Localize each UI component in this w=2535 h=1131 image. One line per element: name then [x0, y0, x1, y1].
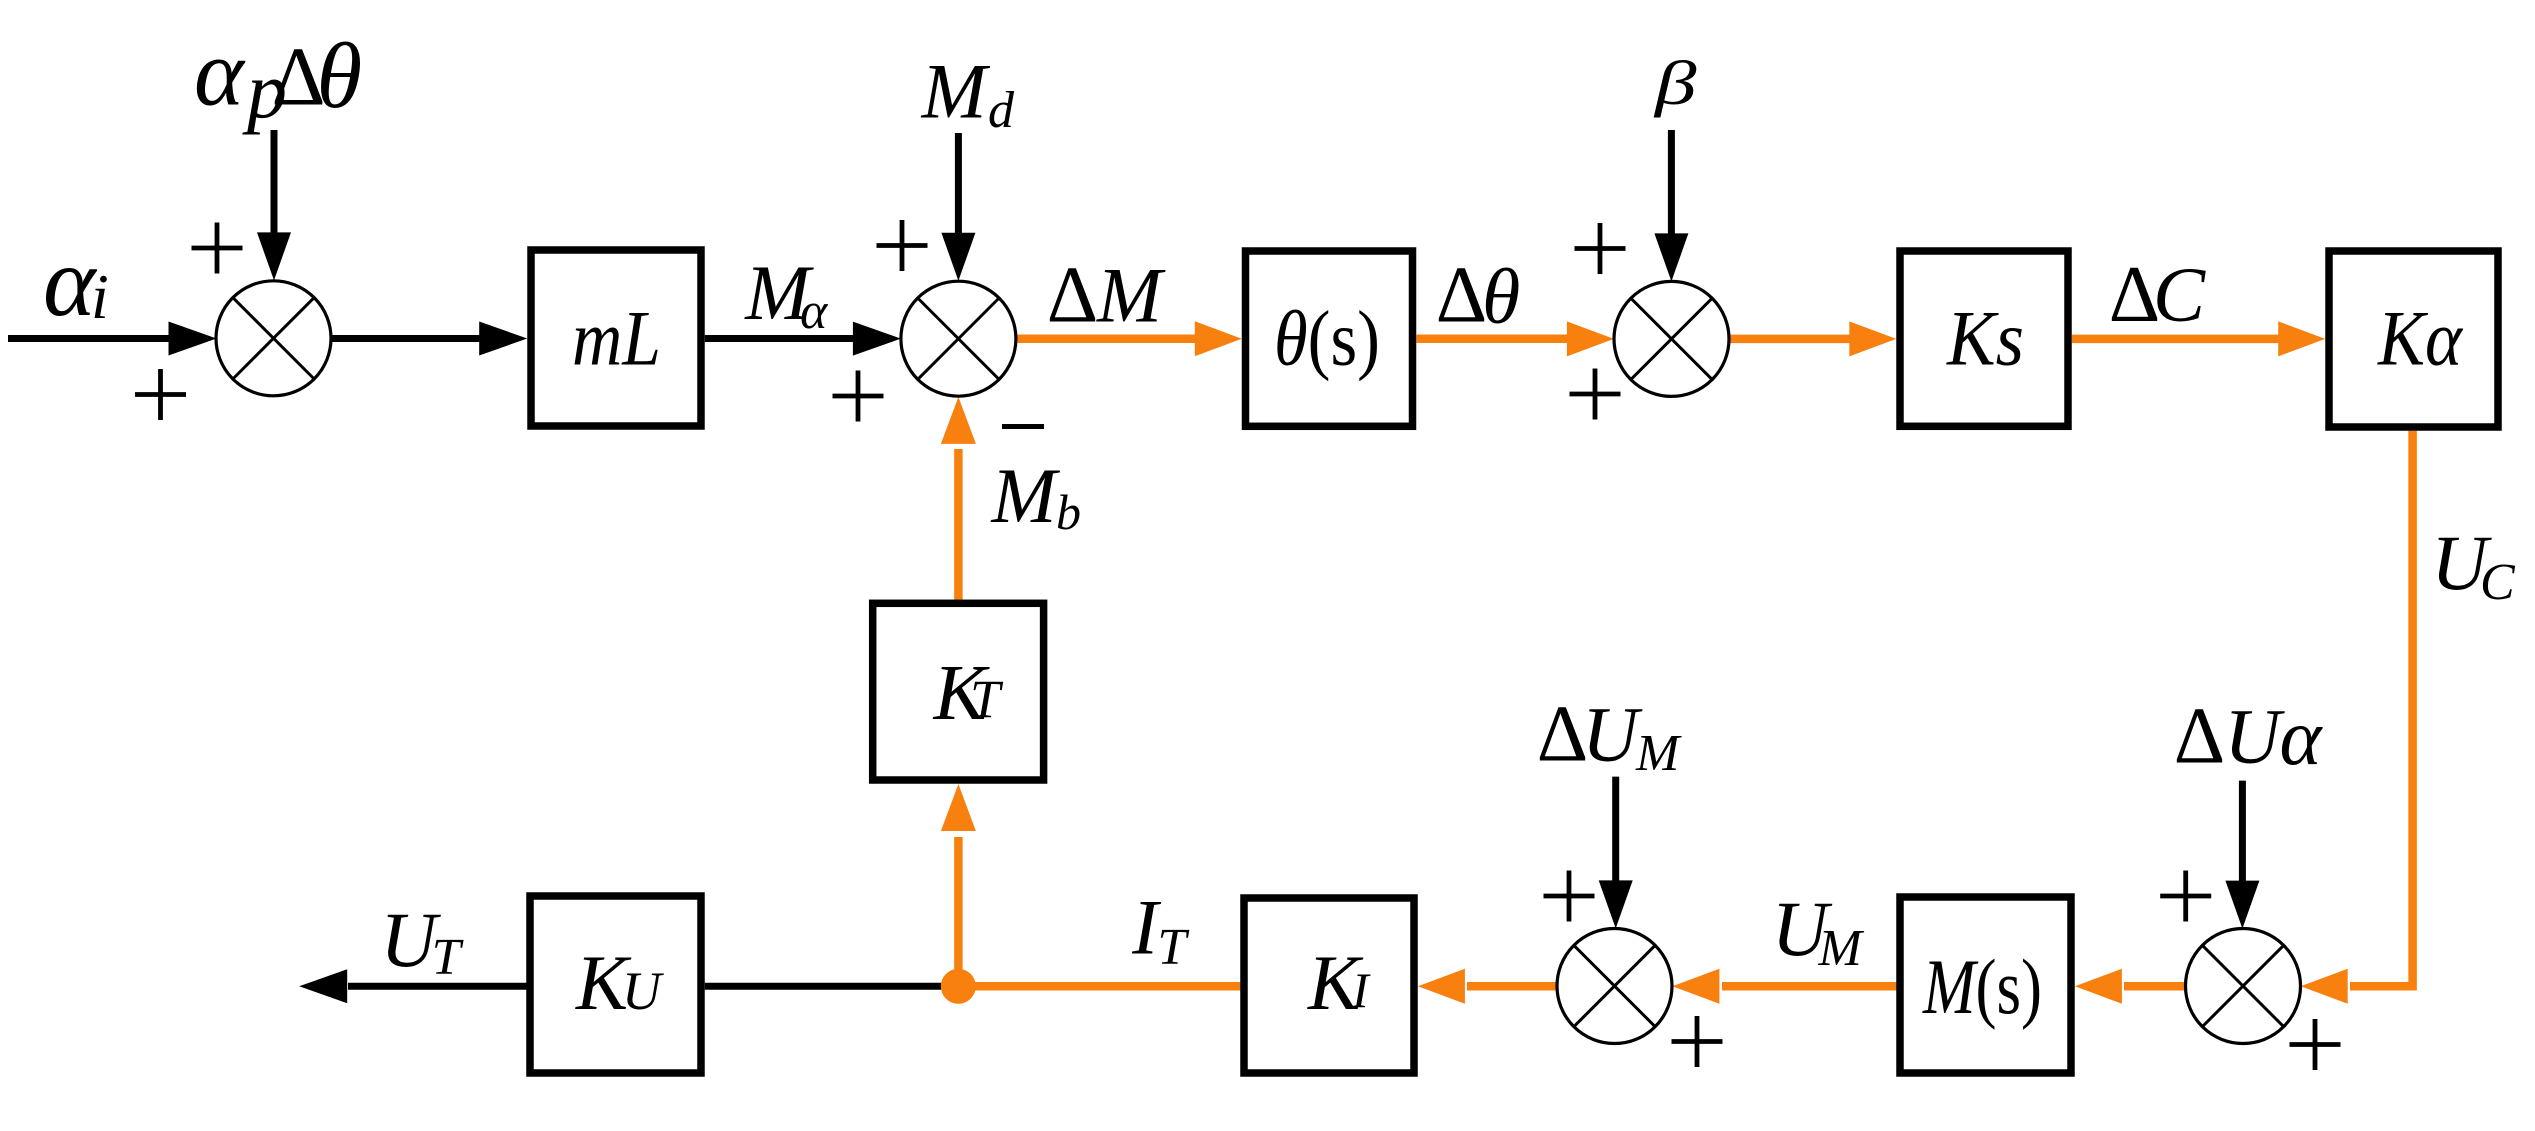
arrowhead U_T output left [299, 969, 347, 1003]
plus sign at S2 left input [833, 394, 884, 399]
svg-text:b: b [1056, 484, 1081, 540]
plus sign at S4 right input [1672, 1039, 1723, 1044]
block Ks [1900, 251, 2068, 426]
svg-text:θ(s): θ(s) [1274, 294, 1380, 381]
wire Ka feedback down and left, signal U_C [2350, 431, 2413, 987]
svg-text:Ks: Ks [1946, 294, 2024, 381]
arrowhead into summer S2 top [941, 233, 975, 281]
svg-text:Δ: Δ [1436, 252, 1487, 340]
block M(s) [1900, 897, 2071, 1073]
summer S2 (M_a + M_d - M_b) [901, 281, 1016, 396]
svg-text:C: C [2480, 554, 2516, 611]
svg-text:Kα: Kα [2377, 294, 2464, 381]
summer S4 (U_M + delta-U_M) [1557, 929, 1672, 1044]
wire KU output U_T [348, 983, 527, 990]
wire M(s) to summer S4, signal U_M [1722, 982, 1899, 991]
svg-text:U: U [622, 961, 664, 1021]
block KI [1244, 898, 1414, 1073]
svg-text:θ: θ [317, 25, 363, 128]
plus sign at S1 top input [192, 246, 243, 251]
svg-text:α: α [800, 283, 829, 340]
arrowhead into summer S3 left [1567, 321, 1614, 356]
wire S2 to theta(s), signal delta-M [1016, 334, 1198, 343]
plus sign at S2 top input [877, 243, 928, 248]
arrowhead into summer S5 top [2225, 881, 2259, 929]
svg-text:M: M [991, 452, 1061, 539]
svg-text:d: d [988, 82, 1015, 139]
wire node junction up to block KT [954, 837, 963, 986]
block mL [531, 250, 701, 426]
svg-text:Δ: Δ [1537, 691, 1588, 779]
svg-text:β: β [1653, 48, 1697, 118]
arrowhead into block Ks [1849, 321, 1896, 356]
wire S1 to block mL [331, 335, 483, 342]
wire a_p-delta-theta vertical input [271, 130, 278, 236]
block KT [873, 603, 1044, 780]
plus sign at S3 top input [1575, 246, 1626, 251]
wire S4 to block KI [1467, 982, 1557, 991]
svg-text:mL: mL [572, 294, 661, 381]
arrowhead into summer S4 right [1672, 969, 1719, 1004]
arrowhead into summer S1 top [257, 232, 291, 280]
svg-text:α: α [43, 226, 98, 337]
plus sign at S5 top input [2160, 894, 2211, 899]
wire S3 to block Ks [1729, 335, 1852, 344]
plus sign at S3 left input [1570, 392, 1621, 397]
wire delta-Ua vertical input [2239, 781, 2246, 886]
svg-text:α: α [2280, 694, 2324, 782]
wire KT up to summer S2, signal M_b [954, 449, 963, 600]
arrowhead into block Ka [2278, 321, 2325, 356]
plus sign at S1 left input [135, 392, 186, 397]
arrowhead into summer S5 right [2301, 969, 2348, 1004]
svg-text:T: T [432, 929, 464, 986]
svg-text:M: M [1096, 252, 1166, 339]
svg-text:i: i [91, 261, 109, 332]
block theta(s) [1246, 251, 1413, 426]
svg-text:θ: θ [1482, 253, 1520, 340]
arrowhead into block KT bottom [941, 784, 976, 831]
svg-text:M(s): M(s) [1922, 943, 2042, 1030]
arrowhead into block KI right [1418, 969, 1465, 1004]
svg-text:Δ: Δ [2174, 693, 2225, 781]
block Ka [2329, 251, 2498, 427]
svg-text:T: T [970, 669, 1004, 729]
wire mL to summer S2 [705, 335, 856, 342]
svg-text:M: M [1635, 725, 1682, 782]
arrowhead into block theta(s) [1195, 321, 1242, 356]
svg-text:U: U [1582, 691, 1643, 778]
svg-text:I: I [1351, 962, 1371, 1018]
wire M_d vertical input [955, 133, 962, 236]
svg-text:Δ: Δ [1047, 252, 1098, 340]
minus sign at S2 bottom input [1002, 424, 1044, 429]
wire theta(s) to summer S3, signal delta-theta [1416, 335, 1569, 344]
wire Ks to block Ka, signal delta-C [2072, 335, 2281, 344]
arrowhead into summer S1 left [169, 322, 217, 356]
wire KI to node junction, signal I_T [958, 982, 1240, 991]
arrowhead into block mL [479, 322, 527, 356]
arrowhead into summer S2 bottom [941, 397, 976, 444]
summer S3 (delta-theta + beta) [1614, 281, 1729, 396]
summer S1 (a_i + a_p-delta-theta) [216, 281, 331, 396]
svg-text:C: C [2153, 251, 2206, 338]
arrowhead into summer S2 left [853, 322, 901, 356]
svg-text:M: M [921, 47, 991, 134]
svg-text:α: α [194, 20, 246, 126]
plus sign at S5 right input [2290, 1042, 2341, 1047]
svg-text:U: U [2224, 693, 2285, 780]
block KU [530, 896, 701, 1073]
svg-text:M: M [1818, 920, 1865, 977]
wire S5 to block M(s) [2124, 982, 2185, 991]
summer S5 (U_C + delta-Ua) [2186, 929, 2301, 1044]
wire delta-U_M vertical input [1612, 777, 1619, 886]
arrowhead into summer S4 top [1599, 880, 1633, 928]
wire a_i input [8, 335, 172, 342]
svg-text:T: T [1157, 919, 1189, 976]
wire KU to node junction [705, 983, 959, 990]
arrowhead into summer S3 top [1654, 233, 1688, 281]
node junction dot [941, 969, 976, 1004]
arrowhead into block M(s) right [2075, 969, 2122, 1004]
plus sign at S4 top input [1544, 894, 1595, 899]
wire beta vertical input [1668, 130, 1675, 236]
